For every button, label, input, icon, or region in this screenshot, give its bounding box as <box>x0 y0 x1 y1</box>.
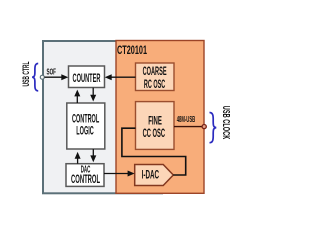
block DAC CONTROL <box>66 164 104 187</box>
wire SOF to COUNTER <box>45 76 63 78</box>
system block (gray box) <box>43 41 162 193</box>
wire I-DAC output routed to FINE CC OSC input <box>122 128 186 175</box>
svg-text:CONTROL: CONTROL <box>71 172 100 186</box>
arrowhead into COUNTER right <box>105 74 112 80</box>
brace left (USB CTRL) <box>32 64 38 91</box>
svg-text:USB CLOCK: USB CLOCK <box>220 106 231 140</box>
wire DAC CONTROL to I-DAC <box>104 173 129 175</box>
node SOF (input node circle) <box>40 75 44 79</box>
svg-text:COARSE: COARSE <box>143 64 167 78</box>
node 48M-USB output <box>202 125 206 129</box>
svg-text:LOGIC: LOGIC <box>76 124 94 138</box>
svg-text:RC OSC: RC OSC <box>144 77 165 91</box>
svg-text:USB CTRL: USB CTRL <box>21 61 31 86</box>
brace right (USB CLOCK) <box>210 113 217 143</box>
block CONTROL LOGIC <box>67 103 105 149</box>
svg-text:CC OSC: CC OSC <box>143 126 166 140</box>
svg-text:SOF: SOF <box>47 67 57 76</box>
svg-text:COUNTER: COUNTER <box>73 71 101 85</box>
block FINE CC OSC <box>136 102 175 150</box>
block COUNTER <box>69 66 105 88</box>
svg-text:I-DAC: I-DAC <box>142 167 160 181</box>
wire down-arrow CONTROL LOGIC to DAC CONTROL <box>92 149 94 156</box>
wire FINE CC OSC to 48M-USB output node <box>174 126 204 128</box>
arrowhead into I-DAC <box>128 171 135 177</box>
wire down-arrow COUNTER to CONTROL LOGIC <box>92 88 94 96</box>
wire COARSE RC OSC to COUNTER <box>111 76 136 78</box>
block COARSE RC OSC <box>136 63 175 91</box>
svg-text:48M-USB: 48M-USB <box>177 115 196 124</box>
block I-DAC (pentagon) <box>135 165 174 186</box>
wire up-arrow CONTROL LOGIC to COUNTER <box>76 96 78 104</box>
chip block CT20101 (orange box) <box>116 41 204 194</box>
wire up-arrow DAC CONTROL to CONTROL LOGIC <box>77 158 79 164</box>
arrowhead into COUNTER left <box>61 74 68 80</box>
svg-text:CT20101: CT20101 <box>117 43 147 57</box>
